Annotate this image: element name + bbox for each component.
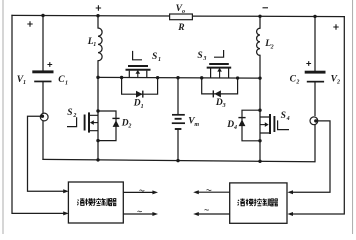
svg-text:4: 4 — [233, 125, 237, 131]
svg-text:3: 3 — [222, 103, 226, 109]
svg-text:2: 2 — [295, 80, 299, 86]
svg-text:S: S — [152, 52, 157, 62]
svg-text:S: S — [281, 111, 286, 121]
svg-text:3: 3 — [202, 56, 206, 62]
svg-text:1: 1 — [65, 80, 68, 86]
svg-text:m: m — [194, 122, 199, 128]
svg-text:1: 1 — [23, 80, 26, 86]
svg-text:o: o — [182, 9, 185, 15]
svg-text:2: 2 — [72, 113, 76, 119]
svg-text:S: S — [197, 51, 202, 61]
svg-text:2: 2 — [127, 124, 131, 130]
svg-text:D: D — [133, 99, 141, 109]
svg-text:R: R — [177, 23, 184, 33]
svg-text:2: 2 — [336, 80, 340, 86]
svg-text:D: D — [226, 120, 234, 130]
svg-text:S: S — [67, 108, 72, 118]
svg-text:4: 4 — [286, 116, 290, 122]
svg-text:1: 1 — [141, 104, 144, 110]
svg-text:2: 2 — [270, 44, 274, 50]
svg-text:1: 1 — [158, 57, 161, 63]
svg-text:1: 1 — [93, 42, 96, 48]
